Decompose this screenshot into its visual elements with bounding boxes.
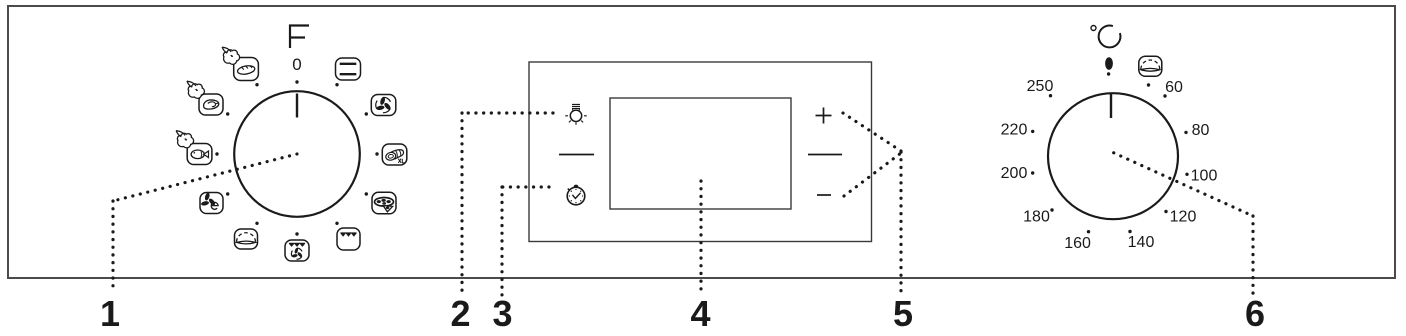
svg-text:0: 0 bbox=[292, 55, 301, 74]
temperature numbers bbox=[1001, 78, 1218, 252]
icon: steam bread bbox=[222, 47, 258, 80]
svg-text:2: 2 bbox=[450, 293, 470, 334]
icon: grill bbox=[337, 228, 360, 250]
svg-text:5: 5 bbox=[893, 293, 913, 334]
leader 3 bbox=[502, 187, 549, 295]
plus sign bbox=[816, 108, 832, 124]
svg-text:180: 180 bbox=[1023, 209, 1050, 226]
svg-text:1: 1 bbox=[100, 293, 120, 334]
icon: turbo grill (grill + fan) bbox=[285, 240, 309, 261]
timer icon bbox=[567, 185, 585, 205]
leader 5 bbox=[843, 113, 901, 295]
left separator line bbox=[559, 154, 594, 156]
keep warm dish icon bbox=[1139, 56, 1162, 76]
svg-text:120: 120 bbox=[1170, 209, 1197, 226]
svg-text:250: 250 bbox=[1027, 78, 1054, 95]
svg-text:6: 6 bbox=[1245, 293, 1265, 334]
leader 4 bbox=[699, 181, 702, 295]
svg-text:60: 60 bbox=[1165, 79, 1183, 96]
svg-text:3: 3 bbox=[492, 293, 512, 334]
icon: pizza bbox=[372, 192, 396, 214]
temp knob circle bbox=[1048, 93, 1178, 219]
callout numbers bbox=[100, 293, 1265, 334]
degree C symbol bbox=[1091, 26, 1120, 48]
svg-text:4: 4 bbox=[690, 293, 710, 334]
icon: forced air fan bbox=[371, 94, 396, 115]
svg-text:220: 220 bbox=[1001, 122, 1028, 139]
display rect bbox=[610, 98, 791, 209]
minus sign bbox=[817, 194, 831, 196]
svg-text:200: 200 bbox=[1001, 165, 1028, 182]
svg-text:160: 160 bbox=[1064, 235, 1091, 252]
icon: steam chicken bbox=[187, 81, 223, 115]
svg-text:140: 140 bbox=[1128, 234, 1155, 251]
control panel rect bbox=[529, 62, 872, 242]
svg-text:100: 100 bbox=[1191, 168, 1218, 185]
svg-text:80: 80 bbox=[1192, 122, 1210, 139]
leader 2 bbox=[462, 113, 553, 295]
icon: maxi cooking XL roast bbox=[382, 144, 407, 165]
letter F bbox=[289, 25, 309, 49]
temp knob pointer bbox=[1110, 94, 1112, 119]
selector dots around function knob bbox=[215, 80, 378, 235]
leader 6 bbox=[1114, 153, 1253, 295]
icon: bread/pizza dish bbox=[235, 229, 258, 249]
panel frame bbox=[8, 6, 1395, 278]
right separator line bbox=[808, 154, 842, 156]
temperature tick dots bbox=[1031, 72, 1189, 233]
knob pointer bbox=[296, 94, 298, 118]
icon: steam fish bbox=[176, 131, 212, 165]
lamp icon bbox=[565, 104, 587, 124]
leader 1 bbox=[113, 154, 297, 291]
icon: conventional heat (two bars) bbox=[336, 58, 361, 80]
knob circle bbox=[234, 91, 360, 217]
lamp position mark (filled oval) bbox=[1105, 57, 1113, 70]
icon: eco fan (fan + e) bbox=[200, 192, 223, 213]
